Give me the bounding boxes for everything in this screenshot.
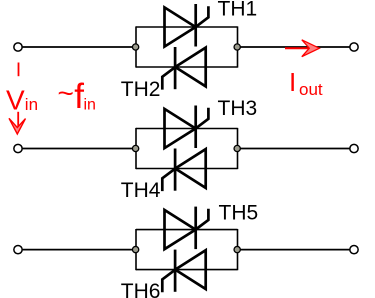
thyristor TH1: [165, 4, 209, 47]
svg-text:TH3: TH3: [218, 97, 258, 120]
wire row2 left: [23, 148, 136, 150]
wire row1 left: [23, 46, 136, 48]
label Iout: [289, 67, 323, 99]
svg-text:out: out: [299, 80, 323, 99]
svg-text:~: ~: [58, 78, 74, 109]
node: right terminal row 2: [350, 144, 358, 152]
wire row2 bottom branch: [136, 168, 238, 170]
node: left terminal row 3: [14, 245, 22, 253]
wire row1 right: [238, 46, 350, 48]
wire row2 top branch: [136, 128, 238, 130]
svg-text:TH6: TH6: [121, 280, 161, 298]
junction dot row2 left: [132, 145, 138, 151]
thyristor TH3: [165, 106, 209, 149]
wire row1 left riser: [135, 26, 137, 67]
label Vin: [6, 84, 38, 115]
node: left terminal row 1: [14, 43, 22, 51]
wire row3 right: [238, 249, 350, 251]
junction dot row3 left: [132, 246, 138, 252]
svg-text:in: in: [84, 97, 96, 114]
wire row1 bottom branch: [136, 66, 238, 68]
wire row3 bottom branch: [136, 269, 238, 271]
svg-text:in: in: [25, 95, 38, 114]
svg-text:TH1: TH1: [218, 0, 258, 20]
svg-text:TH2: TH2: [121, 78, 161, 101]
junction dot row3 right: [234, 246, 240, 252]
junction dot row2 right: [234, 145, 240, 151]
label fin: [58, 77, 96, 116]
wire row2 right riser: [237, 128, 239, 169]
wire row3 top branch: [136, 229, 238, 231]
wire row3 left riser: [135, 229, 137, 270]
node: right terminal row 1: [350, 43, 358, 51]
wire row1 right riser: [237, 26, 239, 67]
svg-text:I: I: [289, 67, 296, 97]
svg-text:TH4: TH4: [121, 179, 161, 202]
thyristor TH4: [162, 149, 205, 192]
svg-text:TH5: TH5: [219, 201, 259, 224]
wire row2 right: [238, 148, 350, 150]
arrow Iout right: [285, 40, 319, 57]
thyristor TH6: [162, 250, 205, 293]
node: left terminal row 2: [14, 144, 22, 152]
node: right terminal row 3: [350, 245, 358, 253]
arrow Vin down: [9, 112, 26, 134]
svg-text:V: V: [6, 84, 25, 115]
wire row3 left: [23, 249, 136, 251]
wire row1 top branch: [136, 26, 238, 28]
junction dot row1 right: [234, 44, 240, 50]
thyristor TH5: [165, 207, 209, 250]
wire row2 left riser: [135, 128, 137, 169]
arrow Vin upper dash: [18, 63, 20, 77]
junction dot row1 left: [132, 44, 138, 50]
wire row3 right riser: [237, 229, 239, 270]
thyristor TH2: [162, 47, 205, 90]
